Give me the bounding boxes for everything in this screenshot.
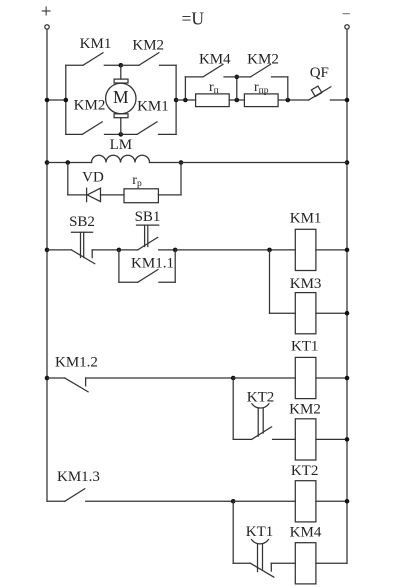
svg-text:M: M xyxy=(113,87,129,107)
svg-text:KM4: KM4 xyxy=(290,525,322,541)
svg-text:SB1: SB1 xyxy=(135,209,161,225)
svg-text:+: + xyxy=(41,1,52,22)
svg-text:KM2: KM2 xyxy=(289,402,321,418)
svg-text:SB2: SB2 xyxy=(69,214,95,230)
svg-text:KM2: KM2 xyxy=(74,98,106,114)
svg-text:KM1: KM1 xyxy=(137,99,169,115)
svg-text:KT2: KT2 xyxy=(291,463,319,479)
svg-text:KT1: KT1 xyxy=(246,524,274,540)
svg-text:KM2: KM2 xyxy=(132,38,164,54)
svg-text:–: – xyxy=(342,6,351,21)
svg-text:=U: =U xyxy=(182,8,205,28)
svg-text:KM4: KM4 xyxy=(199,52,231,68)
svg-text:KM1.3: KM1.3 xyxy=(57,469,100,485)
svg-text:LM: LM xyxy=(110,137,133,153)
svg-text:KM3: KM3 xyxy=(290,276,322,292)
svg-text:KM2: KM2 xyxy=(247,52,279,68)
svg-text:KT1: KT1 xyxy=(291,339,319,355)
svg-text:KM1: KM1 xyxy=(80,36,112,52)
svg-text:KM1.2: KM1.2 xyxy=(55,355,98,371)
svg-text:VD: VD xyxy=(82,170,104,186)
svg-text:KM1: KM1 xyxy=(290,210,322,226)
svg-text:KM1.1: KM1.1 xyxy=(131,256,174,272)
svg-text:QF: QF xyxy=(310,65,329,81)
svg-text:KT2: KT2 xyxy=(247,390,275,406)
